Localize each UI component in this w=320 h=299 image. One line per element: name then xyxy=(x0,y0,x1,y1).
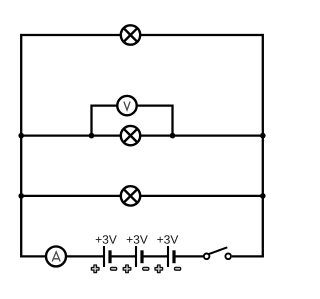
switch S1 xyxy=(204,247,231,259)
battery B3 positive terminal mark xyxy=(155,265,163,273)
lamp L2 xyxy=(121,126,140,145)
wire middle branch xyxy=(21,134,263,136)
node left lower junction xyxy=(18,193,24,199)
battery B3 negative terminal mark xyxy=(175,267,181,270)
battery B2 positive terminal mark xyxy=(123,265,131,273)
wire between cell B2 and cell B3 xyxy=(142,255,168,257)
battery cell B1 xyxy=(104,246,110,267)
wire between cell B1 and cell B2 xyxy=(110,255,136,257)
wire voltmeter loop right xyxy=(171,105,173,136)
lamp L3 xyxy=(121,186,140,205)
wire lower lamp branch xyxy=(21,195,263,197)
node left middle junction xyxy=(18,133,24,139)
battery cell B3 value label +3V xyxy=(157,235,178,244)
battery B2 negative terminal mark xyxy=(143,267,149,270)
wire battery branch segment left xyxy=(21,255,104,257)
wire top branch xyxy=(21,34,263,36)
battery cell B2 value label +3V xyxy=(127,235,148,244)
battery cell B2 xyxy=(136,246,142,267)
battery B1 negative terminal mark xyxy=(111,267,117,270)
battery cell B3 xyxy=(168,246,174,267)
ammeter A1 xyxy=(46,246,66,266)
battery cell B1 value label +3V xyxy=(96,235,117,244)
wire between cell B3 and switch xyxy=(174,255,204,257)
lamp L1 xyxy=(121,25,140,44)
node right middle junction xyxy=(260,133,266,139)
wire voltmeter loop top xyxy=(92,104,173,106)
wire between switch and right rail xyxy=(232,255,263,257)
wire voltmeter loop left xyxy=(90,105,92,136)
node voltmeter tap left xyxy=(89,133,95,139)
node right lower junction xyxy=(260,193,266,199)
wire left rail xyxy=(20,34,22,258)
wire right rail xyxy=(262,34,264,258)
voltmeter V1 xyxy=(117,96,136,115)
node voltmeter tap right xyxy=(170,133,176,139)
battery B1 positive terminal mark xyxy=(91,265,99,273)
